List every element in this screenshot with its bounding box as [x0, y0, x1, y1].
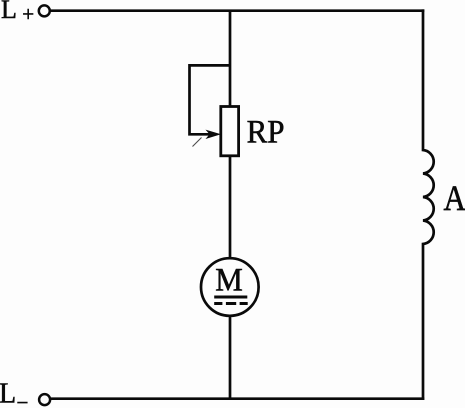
svg-text:+: + [22, 2, 34, 26]
svg-text:RP: RP [247, 114, 285, 150]
svg-text:L: L [0, 379, 16, 408]
svg-text:A: A [444, 179, 465, 219]
svg-text:−: − [17, 390, 29, 408]
svg-text:L: L [1, 0, 17, 24]
svg-text:M: M [215, 262, 243, 298]
